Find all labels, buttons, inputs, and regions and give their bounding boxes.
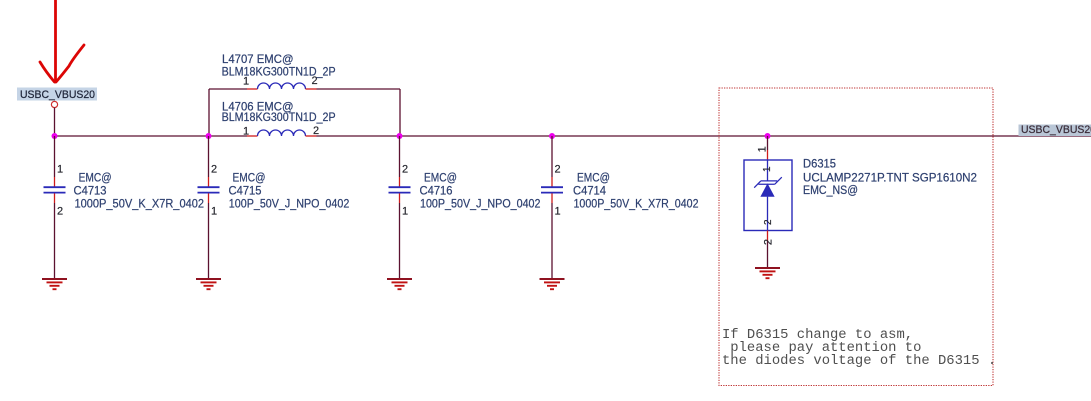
capacitor C4716: [389, 136, 541, 279]
note text: [722, 327, 996, 369]
wire: D6315 pin 2 to ground: [767, 231, 769, 242]
annotation dotted box: [719, 88, 993, 386]
net label USBC_VBUS20 (left): [17, 88, 97, 102]
svg-text:100P_50V_J_NPO_0402: 100P_50V_J_NPO_0402: [420, 196, 541, 210]
wire: bypass branch top left segment: [209, 88, 247, 90]
ground (C4716): [387, 279, 412, 289]
junction dot (bus / C4713): [52, 133, 58, 139]
capacitor C4714: [541, 136, 699, 279]
capacitor C4715: [198, 136, 350, 279]
junction dot (bus / bypass right / C4716): [397, 133, 403, 139]
svg-text:EMC@: EMC@: [79, 172, 112, 184]
svg-text:100P_50V_J_NPO_0402: 100P_50V_J_NPO_0402: [229, 196, 350, 210]
inductor L4707: [222, 52, 336, 89]
svg-text:1000P_50V_K_X7R_0402: 1000P_50V_K_X7R_0402: [75, 196, 205, 210]
off-page connector circle: [51, 101, 57, 107]
svg-text:D6315: D6315: [803, 159, 836, 171]
inductor L4706: [222, 100, 336, 138]
svg-text:the diodes voltage of the D631: the diodes voltage of the D6315 .: [722, 353, 996, 369]
ground (C4715): [196, 279, 221, 289]
wire: bus to D6315 pin 1: [767, 136, 769, 150]
wire: main bus left segment: [55, 135, 248, 137]
wire: main bus right segment: [317, 135, 1091, 137]
svg-text:1000P_50V_K_X7R_0402: 1000P_50V_K_X7R_0402: [574, 196, 699, 210]
wire: bypass branch right vertical: [399, 89, 401, 136]
svg-text:EMC@: EMC@: [233, 172, 266, 184]
net label USBC_VBUS20 (right): [1019, 124, 1091, 136]
svg-text:2: 2: [763, 219, 774, 225]
svg-text:1: 1: [762, 166, 773, 172]
svg-text:BLM18KG300TN1D_2P: BLM18KG300TN1D_2P: [222, 112, 336, 124]
ground (D6315): [755, 268, 780, 278]
svg-text:2: 2: [211, 164, 217, 176]
svg-text:USBC_VBUS20: USBC_VBUS20: [20, 89, 95, 101]
svg-text:EMC_NS@: EMC_NS@: [803, 185, 858, 197]
svg-text:2: 2: [402, 164, 408, 176]
wire: connector to main bus: [54, 108, 56, 136]
svg-text:2: 2: [313, 125, 319, 137]
svg-text:BLM18KG300TN1D_2P: BLM18KG300TN1D_2P: [222, 66, 336, 78]
svg-text:1: 1: [211, 205, 217, 217]
svg-text:1: 1: [756, 146, 768, 152]
ground (C4714): [540, 279, 565, 289]
svg-text:UCLAMP2271P.TNT SGP1610N2: UCLAMP2271P.TNT SGP1610N2: [803, 171, 977, 185]
svg-text:L4707 EMC@: L4707 EMC@: [222, 52, 294, 66]
svg-text:2: 2: [762, 239, 774, 245]
svg-text:2: 2: [555, 164, 561, 176]
wire: bypass branch top right segment: [317, 88, 401, 90]
junction dot (bus / C4714): [549, 133, 555, 139]
TVS diode D6315: [744, 159, 977, 231]
svg-text:2: 2: [57, 205, 63, 217]
svg-text:1: 1: [555, 205, 561, 217]
capacitor C4713: [44, 136, 205, 279]
svg-text:1: 1: [57, 164, 63, 176]
svg-text:1: 1: [243, 126, 249, 138]
wire: bypass branch left vertical: [208, 89, 210, 136]
junction dot (bus / D6315): [765, 133, 771, 139]
svg-text:EMC@: EMC@: [577, 172, 610, 184]
ground (C4713): [42, 279, 67, 289]
junction dot (bus / bypass left / C4715): [206, 133, 212, 139]
annotation arrow (red hand-drawn): [40, 0, 84, 82]
svg-text:1: 1: [402, 205, 408, 217]
svg-text:USBC_VBUS20: USBC_VBUS20: [1021, 124, 1091, 136]
svg-text:EMC@: EMC@: [424, 172, 457, 184]
